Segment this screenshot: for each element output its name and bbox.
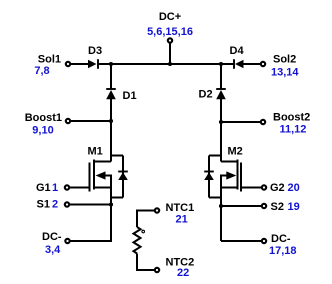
thermistor NTC (zigzag) [134, 227, 141, 254]
transistor M1 (N-channel MOSFET) [90, 160, 112, 192]
svg-text:5,6,15,16: 5,6,15,16 [147, 26, 193, 38]
svg-text:G2: G2 [270, 182, 285, 194]
terminal Boost2 [261, 120, 265, 124]
svg-text:S1: S1 [37, 199, 50, 211]
svg-text:Sol1: Sol1 [38, 54, 61, 66]
wire G2 to gate [241, 187, 261, 189]
svg-text:2: 2 [52, 199, 58, 211]
wire NTC1 to thermistor [137, 211, 154, 228]
svg-text:7,8: 7,8 [34, 65, 49, 77]
thermistor temperature mark [142, 230, 145, 233]
svg-text:19: 19 [288, 201, 300, 213]
wire DC- left [71, 240, 113, 242]
terminal DC- right [262, 239, 266, 243]
diode D2 [216, 89, 226, 99]
svg-text:13,14: 13,14 [271, 67, 299, 79]
svg-text:D3: D3 [88, 45, 102, 57]
svg-text:S2: S2 [271, 201, 284, 213]
wire M1 source down [110, 175, 112, 242]
svg-text:1: 1 [52, 182, 58, 194]
svg-text:DC-: DC- [42, 231, 62, 243]
terminal S1 [65, 202, 69, 206]
terminal Boost1 [66, 119, 70, 123]
svg-text:22: 22 [177, 267, 189, 279]
terminal G2 [262, 185, 266, 189]
wire S1 to source [70, 204, 111, 206]
wire DC+ drop [169, 44, 171, 65]
junction Boost2 [219, 120, 223, 124]
svg-text:Boost1: Boost1 [25, 112, 62, 124]
body diode of M2 [204, 156, 221, 198]
junction left rail [109, 62, 113, 66]
svg-text:NTC1: NTC1 [166, 202, 195, 214]
junction Boost1 [109, 119, 113, 123]
wire right branch lower (to M2 drain) [220, 99, 222, 162]
wire M2 source down [220, 175, 222, 242]
junction DC+ on rail [168, 62, 172, 66]
wire G1 to gate [70, 187, 90, 189]
body diode of M1 [111, 156, 128, 198]
diode D4 [234, 59, 244, 69]
junction S2 [219, 204, 223, 208]
wire D4 anode to Sol2 [243, 63, 261, 65]
wire left branch upper [110, 64, 112, 89]
transistor M2 (N-channel MOSFET, mirrored) [221, 160, 241, 192]
wire Boost1 [71, 120, 111, 122]
terminal Sol2 [261, 62, 265, 66]
terminal G1 [65, 185, 69, 189]
wire rail to D4 cathode [221, 63, 234, 65]
svg-text:Boost2: Boost2 [273, 112, 310, 124]
svg-text:D4: D4 [230, 45, 245, 57]
svg-text:G1: G1 [36, 182, 51, 194]
svg-text:M1: M1 [88, 146, 103, 158]
wire right branch upper [220, 64, 222, 89]
wire DC- right [221, 240, 261, 242]
svg-text:9,10: 9,10 [32, 125, 53, 137]
wire thermistor to NTC2 [137, 254, 154, 271]
svg-text:D2: D2 [199, 89, 213, 101]
terminal NTC2 [155, 268, 159, 272]
diode D3 [88, 59, 98, 69]
diode D1 [106, 89, 116, 99]
terminal S2 [262, 204, 266, 208]
terminal NTC1 [155, 208, 159, 212]
terminal DC- left [65, 239, 69, 243]
svg-text:Sol2: Sol2 [273, 54, 296, 66]
terminal DC+ [168, 38, 172, 42]
svg-text:D1: D1 [123, 90, 137, 102]
wire D3 cathode to rail junction [98, 63, 111, 65]
junction right rail [219, 62, 223, 66]
svg-text:DC-: DC- [271, 233, 291, 245]
svg-text:11,12: 11,12 [280, 124, 307, 136]
wire top rail [111, 63, 221, 65]
svg-text:17,18: 17,18 [269, 245, 297, 257]
svg-text:M2: M2 [228, 146, 243, 158]
svg-text:DC+: DC+ [159, 11, 181, 23]
terminal Sol1 [66, 62, 70, 66]
junction S1 [109, 202, 113, 206]
wire left branch lower (to M1 drain) [110, 99, 112, 162]
wire Boost2 [221, 121, 261, 123]
svg-text:20: 20 [288, 182, 300, 194]
wire Sol1 to D3 anode [71, 63, 89, 65]
svg-text:21: 21 [176, 214, 188, 226]
svg-text:3,4: 3,4 [45, 244, 61, 256]
wire S2 to source [221, 205, 261, 207]
